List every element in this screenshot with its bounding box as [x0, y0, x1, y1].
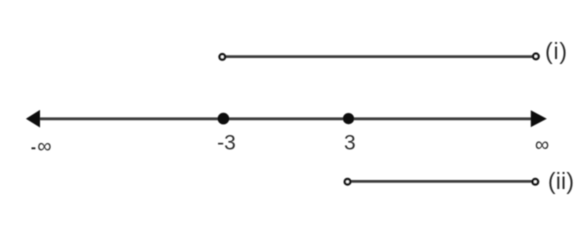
svg-text:∞: ∞ [535, 134, 549, 156]
wire: interval (ii) segment from 3 to infinity [348, 180, 536, 183]
node: open endpoint at 3 on interval (ii) [345, 179, 351, 185]
svg-text:(ii): (ii) [548, 168, 574, 194]
svg-text:3: 3 [344, 132, 356, 155]
node: filled point at 3 [343, 113, 354, 124]
wire: interval (i) segment from -3 to infinity [222, 55, 536, 58]
label minus sign of -infinity [32, 147, 36, 149]
node: open endpoint at infinity on interval (ii) [533, 179, 539, 185]
svg-text:-3: -3 [217, 132, 236, 155]
svg-text:∞: ∞ [37, 136, 51, 158]
arrowhead right (toward +infinity) [531, 110, 547, 127]
node: filled point at -3 [218, 113, 230, 125]
wire: main number line shaft [38, 117, 532, 120]
arrowhead left (toward -infinity) [26, 110, 40, 128]
svg-text:(i): (i) [545, 38, 568, 64]
node: open endpoint at -3 on interval (i) [220, 54, 226, 60]
node: open endpoint at infinity on interval (i) [533, 54, 539, 60]
